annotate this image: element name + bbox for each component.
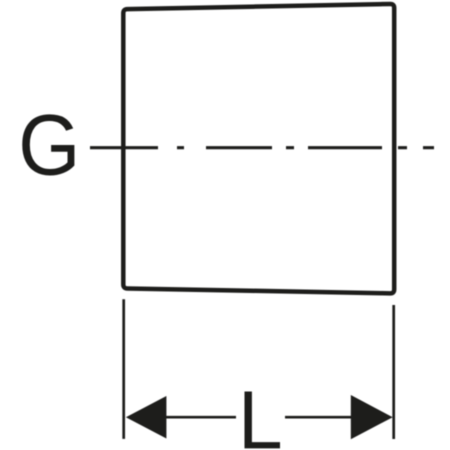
arrowhead left	[126, 396, 166, 439]
centerline (dash-dot axis)	[90, 146, 434, 149]
svg-text:G: G	[18, 97, 80, 194]
arrowhead right	[351, 395, 393, 439]
dimension line left segment	[164, 416, 236, 419]
body outline (tapered socket)	[123, 4, 394, 293]
extension line left	[122, 299, 125, 439]
dimension line right segment	[285, 416, 353, 419]
label L	[245, 392, 281, 449]
extension line right	[392, 305, 395, 439]
